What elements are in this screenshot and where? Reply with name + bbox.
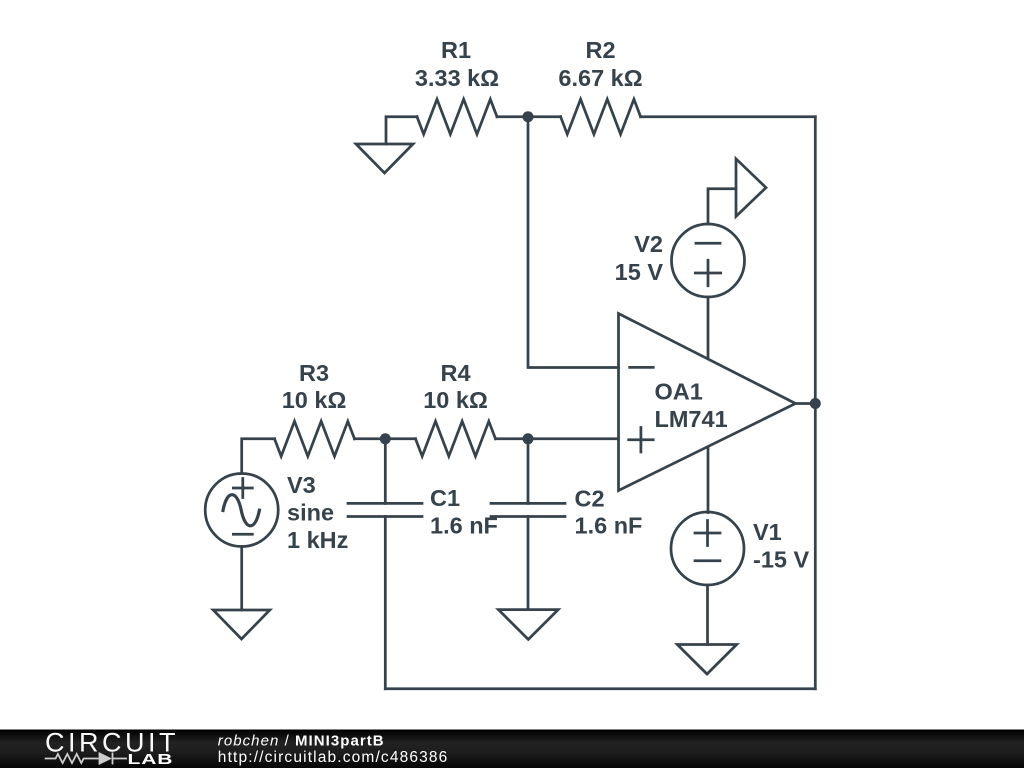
svg-text:http://circuitlab.com/c486386: http://circuitlab.com/c486386	[218, 749, 449, 766]
wire: node B down to C2 top plate	[527, 439, 530, 504]
V3 sine symbol	[223, 495, 259, 526]
svg-text:15 V: 15 V	[615, 259, 664, 285]
svg-text:R1: R1	[441, 37, 471, 63]
wire: R3 to node A	[355, 437, 386, 440]
svg-text:C1: C1	[430, 485, 460, 511]
svg-text:10 kΩ: 10 kΩ	[423, 387, 488, 413]
svg-text:1 kHz: 1 kHz	[287, 527, 348, 553]
resistor R4	[416, 421, 496, 456]
V3 plus sign	[233, 479, 252, 498]
svg-text:-15 V: -15 V	[753, 547, 809, 573]
wire: V3 bottom to ground	[240, 547, 243, 611]
svg-text:6.67 kΩ: 6.67 kΩ	[558, 65, 642, 91]
resistor R2	[561, 99, 641, 134]
V2 plus sign	[695, 260, 720, 285]
capacitor C1	[348, 503, 422, 516]
voltage source V3 circle	[205, 474, 278, 547]
wire: R2 right lead to right rail	[641, 115, 816, 118]
svg-text:LM741: LM741	[655, 406, 728, 432]
wire: op-amp output lead	[796, 402, 816, 405]
svg-text:3.33 kΩ: 3.33 kΩ	[415, 65, 499, 91]
svg-text:V2: V2	[634, 231, 663, 257]
op-amp minus input sign	[630, 366, 654, 369]
svg-text:robchen / MINI3partB: robchen / MINI3partB	[218, 733, 385, 750]
wire: V2 bottom to op-amp top	[707, 297, 710, 358]
V3 minus sign	[233, 533, 252, 536]
resistor R1	[417, 99, 497, 134]
wire: V2 top to power flag	[708, 189, 736, 224]
wire: inverting input from node down and right to op-amp	[528, 117, 619, 368]
svg-text:OA1: OA1	[655, 379, 703, 405]
wire: node B to op-amp + input	[528, 437, 619, 440]
voltage source V1 circle	[671, 512, 744, 585]
svg-text:C2: C2	[575, 485, 605, 511]
wire: R4 to node B	[496, 437, 529, 440]
footer bar	[0, 730, 1024, 769]
wire: R1 left elbow to ground	[386, 117, 417, 144]
wire: C2 bottom to ground	[527, 517, 530, 610]
node R1/R2 junction	[523, 111, 534, 122]
ground (below V1)	[677, 645, 736, 675]
wire: R1 right lead to node	[497, 115, 528, 118]
ground (below C2)	[498, 610, 558, 640]
svg-text:10 kΩ: 10 kΩ	[282, 387, 347, 413]
logo LAB	[128, 751, 174, 767]
svg-text:V1: V1	[753, 519, 782, 545]
wire: node A to R4	[385, 437, 415, 440]
node B junction	[523, 433, 534, 444]
power flag arrow (V2)	[736, 159, 766, 217]
op-amp plus input sign	[629, 428, 654, 453]
svg-text:R3: R3	[299, 360, 329, 386]
ground (below V3)	[213, 610, 270, 639]
wire: V3 elbow to R3	[242, 439, 275, 474]
svg-text:1.6 nF: 1.6 nF	[575, 512, 643, 538]
svg-text:V3: V3	[287, 472, 316, 498]
svg-text:R4: R4	[440, 360, 470, 386]
V1 minus sign	[695, 559, 720, 562]
wire: op-amp bottom to V1 top	[707, 447, 710, 513]
voltage source V2 circle	[672, 224, 745, 297]
ground (top-left, R1)	[356, 144, 413, 173]
V2 minus sign	[696, 242, 720, 245]
node output junction	[810, 398, 821, 409]
svg-text:1.6 nF: 1.6 nF	[430, 513, 498, 539]
wire: bottom rail up to C1	[384, 517, 387, 689]
logo resistor-diode symbol	[45, 753, 127, 765]
wire: node to R2 left lead	[528, 115, 561, 118]
capacitor C2	[491, 503, 565, 516]
V1 plus sign	[695, 521, 720, 546]
node A junction	[380, 433, 391, 444]
wire: node A down to C1 top plate	[384, 439, 387, 504]
svg-text:R2: R2	[585, 37, 615, 63]
svg-text:LAB: LAB	[128, 751, 174, 767]
svg-text:sine: sine	[287, 500, 334, 526]
wire: right rail vertical	[814, 117, 817, 689]
wire: bottom feedback rail	[385, 687, 815, 690]
wire: V1 bottom to ground	[706, 585, 709, 645]
resistor R3	[275, 421, 355, 456]
op-amp OA1 triangle	[619, 314, 796, 491]
